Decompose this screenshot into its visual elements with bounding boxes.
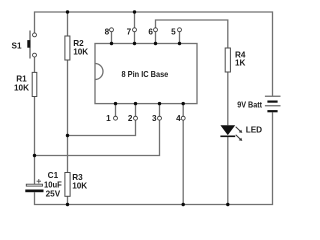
svg-text:10K: 10K (73, 48, 88, 57)
svg-text:25V: 25V (46, 189, 61, 198)
svg-text:10uF: 10uF (44, 180, 62, 189)
svg-text:8: 8 (105, 28, 110, 37)
svg-text:1K: 1K (235, 58, 246, 67)
svg-text:5: 5 (171, 28, 176, 37)
svg-text:S1: S1 (12, 42, 22, 51)
svg-text:10K: 10K (72, 181, 87, 190)
svg-text:6: 6 (148, 28, 153, 37)
svg-text:4: 4 (176, 114, 181, 123)
svg-text:3: 3 (152, 114, 157, 123)
svg-text:9V Batt: 9V Batt (237, 100, 262, 109)
svg-text:C1: C1 (48, 171, 59, 180)
svg-text:2: 2 (128, 114, 133, 123)
svg-text:1: 1 (106, 114, 111, 123)
svg-text:LED: LED (246, 126, 262, 135)
svg-text:10K: 10K (14, 84, 29, 93)
svg-text:8 Pin IC Base: 8 Pin IC Base (122, 70, 169, 79)
svg-text:R1: R1 (16, 75, 27, 84)
svg-text:7: 7 (127, 28, 132, 37)
